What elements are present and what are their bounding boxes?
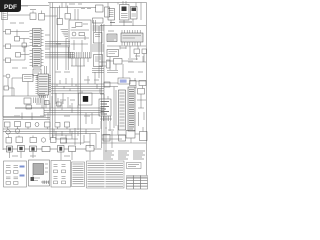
legend panel A xyxy=(4,161,27,187)
IC U1 lower xyxy=(33,49,42,68)
wire xyxy=(3,76,14,96)
connector J1 xyxy=(2,10,8,20)
resistor R9 xyxy=(119,135,126,141)
wire xyxy=(3,30,30,61)
capacitor C1 xyxy=(57,19,63,25)
wire xyxy=(37,66,47,96)
IC U4 xyxy=(107,50,119,57)
wire center bus xyxy=(50,3,96,141)
resistor R7 xyxy=(26,105,32,109)
wire xyxy=(107,46,146,71)
wire tangle center xyxy=(52,131,84,143)
IC U2 xyxy=(107,34,117,42)
resistor R2 xyxy=(39,14,45,21)
wire xyxy=(136,86,146,127)
bus ladder A xyxy=(45,42,70,47)
wire xyxy=(56,72,95,104)
wire lower verticals xyxy=(22,96,92,136)
pin comb U6 right xyxy=(49,76,52,92)
scattered value labels xyxy=(12,35,143,156)
IC U3 wide xyxy=(121,30,143,46)
IC U5 cluster xyxy=(23,75,34,82)
wire xyxy=(102,125,147,152)
capacitor C2 xyxy=(65,14,71,20)
wire bus lower xyxy=(15,108,104,115)
notes text column 2 xyxy=(118,151,129,159)
blue highlight node box xyxy=(118,78,130,84)
pin comb U6 left xyxy=(36,76,39,94)
resistor R1 xyxy=(30,13,36,20)
resistor R11 xyxy=(57,102,62,106)
pin ticks U1 right xyxy=(41,31,44,66)
component row A xyxy=(5,122,70,128)
wire xyxy=(100,94,110,131)
mid column cluster xyxy=(92,18,104,73)
wire divider bundle xyxy=(99,24,104,150)
box lower mid-right xyxy=(107,60,119,73)
connector P3 tall xyxy=(128,87,135,131)
resistor R8 xyxy=(103,135,110,142)
wire xyxy=(104,78,146,128)
title label box xyxy=(127,163,142,169)
parts list table S2 xyxy=(87,161,125,188)
bus staircase xyxy=(61,30,69,39)
block outline main xyxy=(69,20,91,58)
transistor Q2 xyxy=(6,130,10,134)
transistor Q3 xyxy=(15,129,19,133)
wire below block xyxy=(71,58,88,66)
transistor Q4 xyxy=(6,74,10,78)
jungle IC U6 xyxy=(38,74,49,95)
value labels right xyxy=(108,31,140,56)
node square D1 xyxy=(79,93,93,105)
wire left rail xyxy=(3,6,28,150)
wire xyxy=(99,46,146,78)
transistor Q1 xyxy=(72,32,76,36)
wire xyxy=(10,151,91,160)
resistor R4 xyxy=(134,49,140,54)
svg-text:PDF: PDF xyxy=(4,4,17,11)
box lower right xyxy=(102,127,148,141)
notes text column 1 xyxy=(103,151,114,159)
pin comb in block xyxy=(34,98,41,104)
wire junction ticks xyxy=(57,84,100,93)
wire xyxy=(71,30,90,52)
resistor R3 xyxy=(79,33,85,36)
junction text cluster xyxy=(99,99,111,116)
IC U1b below xyxy=(33,69,41,76)
resistor R6 xyxy=(24,98,31,104)
wire xyxy=(9,128,96,148)
wire xyxy=(7,127,67,130)
wire xyxy=(3,96,78,120)
resistor bank right xyxy=(130,81,147,95)
wire xyxy=(12,74,33,96)
revision table xyxy=(127,176,148,190)
blue legend mark 1 xyxy=(20,166,25,168)
capacitor C7 xyxy=(4,86,9,90)
small box node xyxy=(104,82,110,87)
IC U1 upper xyxy=(33,29,42,47)
resistor R10 xyxy=(45,101,50,105)
component row B xyxy=(6,137,67,143)
blue legend mark 2 xyxy=(20,175,25,177)
degauss subcircuit box xyxy=(29,160,50,186)
bus ladder B xyxy=(45,53,74,58)
value label in block xyxy=(72,24,89,28)
bottom schematic cluster left xyxy=(3,146,57,153)
transformer T3 xyxy=(131,7,138,20)
resistor network left column xyxy=(6,30,27,63)
PDF badge xyxy=(0,0,21,12)
pin comb U6 bottom xyxy=(40,95,48,98)
wire right verticals xyxy=(75,3,141,131)
capacitor C4 xyxy=(114,59,123,65)
capacitor C3 xyxy=(76,23,83,27)
transformer T1 xyxy=(108,9,115,21)
pin comb below cluster xyxy=(100,116,112,121)
horizontal bus center xyxy=(51,84,104,93)
parts list table S1 xyxy=(72,162,85,187)
pin comb block bottom xyxy=(71,52,90,58)
border frame xyxy=(8,3,147,190)
wire xyxy=(8,6,68,19)
diode fills bottom row xyxy=(8,147,62,151)
capacitor C5 xyxy=(96,5,104,12)
block outline left-lower xyxy=(3,96,44,117)
notes text column 3 xyxy=(133,151,145,159)
value label top-left xyxy=(10,10,36,24)
pin ticks U1 left xyxy=(30,31,33,66)
capacitor C6 xyxy=(105,7,110,17)
bottom cluster center xyxy=(58,146,102,153)
resistor R5 xyxy=(142,49,147,54)
value label top center xyxy=(69,3,82,5)
wire xyxy=(3,129,100,134)
flyback transformer T2 xyxy=(120,1,130,20)
legend panel B xyxy=(51,161,71,188)
connector P2 tall xyxy=(119,90,126,130)
wire xyxy=(100,19,146,26)
value label 4-xxx xyxy=(110,21,132,24)
wire xyxy=(66,39,68,70)
wire top ticks xyxy=(62,3,136,9)
